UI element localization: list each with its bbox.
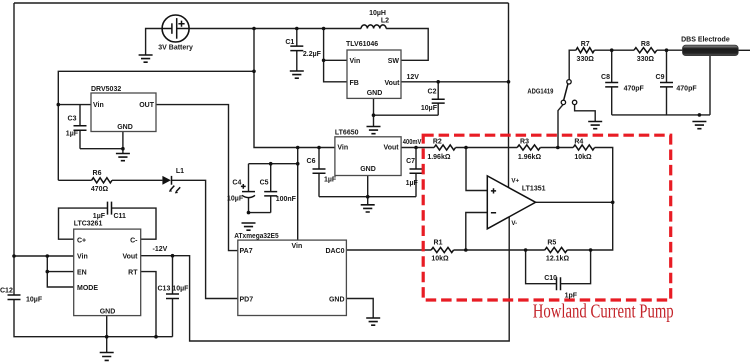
wire LTC3261 C+ to C11 to C- <box>59 208 157 239</box>
svg-text:R3: R3 <box>520 138 529 145</box>
svg-text:1.96kΩ: 1.96kΩ <box>427 154 451 161</box>
wire TLV61046 Vin drop <box>324 29 347 61</box>
svg-text:C9: C9 <box>656 74 665 81</box>
svg-text:V-: V- <box>511 220 517 227</box>
resistor R5 <box>545 247 567 252</box>
DBS electrode body <box>683 45 739 55</box>
wire C10 parallel loop <box>526 250 591 284</box>
svg-text:GND: GND <box>367 90 383 97</box>
svg-text:-12V: -12V <box>153 246 168 253</box>
svg-text:12.1kΩ: 12.1kΩ <box>546 256 570 263</box>
battery BT1 3V <box>162 15 189 42</box>
wire TLV61046 GND stem <box>373 98 375 126</box>
svg-text:GND: GND <box>100 309 116 316</box>
svg-text:LT6650: LT6650 <box>335 129 359 136</box>
wire LTC3261 Vin row <box>14 255 74 257</box>
svg-text:1pF: 1pF <box>565 293 578 300</box>
ground C4 C5 <box>242 223 256 230</box>
capacitor C7 <box>410 148 423 197</box>
svg-text:10µH: 10µH <box>369 10 386 17</box>
svg-text:10µF: 10µF <box>172 286 189 293</box>
svg-text:C-: C- <box>130 237 138 244</box>
svg-text:PA7: PA7 <box>240 248 253 255</box>
svg-text:100nF: 100nF <box>276 196 297 203</box>
svg-text:10µF: 10µF <box>227 196 244 203</box>
wire ATxmega Vin drop <box>297 148 299 241</box>
svg-text:GND: GND <box>360 166 376 173</box>
IC U2 TLV61046 <box>347 50 401 98</box>
svg-text:C+: C+ <box>77 237 86 244</box>
wire 3V drop at x254 to LT6650 Vin row <box>254 29 335 148</box>
svg-text:TLV61046: TLV61046 <box>346 41 378 48</box>
wire 3V rail after L2 to SW elbow <box>386 29 428 61</box>
Howland current pump dashed boundary <box>423 135 671 300</box>
ground C1 <box>290 71 304 78</box>
svg-text:C6: C6 <box>307 158 316 165</box>
svg-text:10kΩ: 10kΩ <box>431 256 449 263</box>
svg-text:ATxmega32E5: ATxmega32E5 <box>234 233 278 240</box>
svg-text:R4: R4 <box>574 138 583 145</box>
svg-text:R7: R7 <box>581 41 590 48</box>
svg-text:C2: C2 <box>428 88 437 95</box>
svg-text:3V Battery: 3V Battery <box>158 45 193 52</box>
wire op-amp output <box>536 201 613 203</box>
svg-text:C12: C12 <box>0 288 13 295</box>
svg-text:Vin: Vin <box>93 102 104 109</box>
IC U1 DRV5032 <box>91 93 156 132</box>
wire switch left throw to R3/R4 node <box>558 105 563 148</box>
wire DRV5032 GND stem <box>122 132 124 154</box>
capacitor C10 <box>550 277 567 290</box>
resistor R2 <box>434 145 455 150</box>
wire DRV5032 OUT to ATxmega PA7 <box>156 105 238 251</box>
wire 3V battery rail <box>189 28 361 30</box>
svg-text:LT1351: LT1351 <box>522 186 546 193</box>
svg-text:V+: V+ <box>511 178 519 185</box>
wire R3 to R4 switch node <box>540 147 573 149</box>
svg-text:Vin: Vin <box>292 243 303 250</box>
svg-text:Vout: Vout <box>122 254 138 261</box>
wire 12V frame left rail down to C12 <box>13 3 15 295</box>
ground ATxmega <box>366 318 380 325</box>
wire battery negative to ground <box>146 29 163 56</box>
wire C2 bottom return to TLV GND <box>374 114 439 116</box>
wire C4 C5 bottom rail <box>249 212 271 214</box>
svg-text:FB: FB <box>350 80 359 87</box>
resistor R3 <box>517 145 540 150</box>
IC U5 ATxmega32E5 <box>238 240 347 315</box>
svg-text:2.2µF: 2.2µF <box>303 51 322 58</box>
resistor R4 <box>573 145 594 150</box>
wire op-amp - input from R1/R5 node <box>466 213 488 251</box>
IC U4 LT6650 <box>335 137 401 176</box>
svg-text:GND: GND <box>117 124 133 131</box>
wire 12V frame right rail / op-amp V+ supply <box>508 3 510 188</box>
svg-text:DRV5032: DRV5032 <box>91 86 121 93</box>
svg-text:PD7: PD7 <box>240 297 254 304</box>
svg-text:L2: L2 <box>381 17 389 24</box>
svg-text:1µF: 1µF <box>93 213 106 220</box>
svg-text:C8: C8 <box>601 74 610 81</box>
svg-text:C4: C4 <box>232 180 241 187</box>
svg-text:SW: SW <box>388 58 400 65</box>
wire DBS electrode right terminal <box>738 49 750 51</box>
wire LTC3261 Vout -12V rail to op-amp V- <box>141 217 510 341</box>
wire R6 to LED <box>112 179 162 181</box>
svg-text:1µF: 1µF <box>324 176 337 183</box>
wire R2 to R3 <box>456 147 518 149</box>
svg-text:OUT: OUT <box>139 102 155 109</box>
capacitor C12 <box>8 295 21 300</box>
op-amp U6 LT1351 <box>487 176 535 229</box>
wire LTC3261 EN <box>47 271 73 273</box>
svg-text:Vin: Vin <box>77 254 88 261</box>
ground DRV5032 <box>116 154 130 161</box>
svg-text:1µF: 1µF <box>406 180 419 187</box>
svg-text:R1: R1 <box>434 239 443 246</box>
wire C3 bottom rail <box>80 148 123 150</box>
wire R1 to R5 node <box>454 249 526 251</box>
svg-text:L1: L1 <box>176 168 184 175</box>
wire LTC3261 RT to ground rail <box>141 272 156 337</box>
svg-text:Howland Current Pump: Howland Current Pump <box>533 301 674 322</box>
svg-text:Vin: Vin <box>350 58 361 65</box>
svg-text:400mV: 400mV <box>403 139 422 146</box>
svg-text:10µF: 10µF <box>421 105 438 112</box>
wire LT6650 GND stem <box>367 176 369 205</box>
wire ATxmega GND <box>346 299 373 319</box>
ground DBS <box>692 122 706 129</box>
wire R6 LED row from 3V rail <box>58 179 91 181</box>
svg-text:470pF: 470pF <box>624 85 645 92</box>
svg-text:RT: RT <box>128 270 138 277</box>
wire DRV5032 Vin <box>58 104 91 106</box>
svg-text:ADG1419: ADG1419 <box>527 89 553 96</box>
svg-text:Vin: Vin <box>337 145 348 152</box>
capacitor C2 <box>432 82 445 115</box>
svg-text:MODE: MODE <box>77 285 98 292</box>
wire switch right throw to ground <box>575 105 596 122</box>
ground battery <box>139 55 153 62</box>
svg-text:Vout: Vout <box>384 80 400 87</box>
capacitor C4 electrolytic <box>241 164 255 213</box>
svg-text:470pF: 470pF <box>676 85 697 92</box>
ground LTC3261 <box>100 353 114 361</box>
wire DBS electrode bottom drop <box>709 55 711 115</box>
LED L1 <box>162 176 180 194</box>
switch ADG1419 <box>561 80 577 105</box>
svg-text:R8: R8 <box>641 41 650 48</box>
svg-text:GND: GND <box>329 297 345 304</box>
wire LT6650 Vout 400mV to R2 <box>401 147 434 149</box>
wire TLV61046 FB branch <box>324 60 347 82</box>
svg-text:C7: C7 <box>406 158 415 165</box>
svg-text:R5: R5 <box>547 239 556 246</box>
wire R5 left lead <box>526 249 545 251</box>
svg-text:DBS Electrode: DBS Electrode <box>681 37 730 44</box>
svg-text:1.96kΩ: 1.96kΩ <box>518 154 542 161</box>
wire ATxmega DAC0 to R1 <box>346 249 431 251</box>
svg-text:10µF: 10µF <box>26 297 43 304</box>
capacitor C11 <box>108 202 112 215</box>
wire R7 to R8 <box>594 49 634 51</box>
wire LED to ATxmega PD7 <box>172 180 238 298</box>
wire op-amp + input from R2/R3 node <box>466 148 487 191</box>
svg-text:C5: C5 <box>260 180 269 187</box>
wire R4 right to op-amp output and R5 right <box>567 148 613 251</box>
svg-text:C11: C11 <box>114 213 127 220</box>
wire C8 C9 ground rail <box>612 114 710 116</box>
svg-text:R6: R6 <box>93 170 102 177</box>
svg-text:330Ω: 330Ω <box>637 56 655 63</box>
capacitor C13 <box>166 256 179 337</box>
svg-text:C13: C13 <box>158 286 171 293</box>
ground TLV61046 <box>367 127 381 134</box>
wire LTC3261 GND stem <box>106 316 108 353</box>
resistor R8 <box>634 48 657 53</box>
wire C4 C5 top rail <box>249 163 298 165</box>
capacitor C6 <box>313 148 326 197</box>
svg-text:DAC0: DAC0 <box>325 248 344 255</box>
resistor R6 <box>92 178 112 183</box>
capacitor C8 <box>605 50 618 115</box>
svg-text:EN: EN <box>77 270 87 277</box>
wire 12V frame top rail <box>14 2 509 4</box>
capacitor C5 <box>264 164 277 213</box>
capacitor C3 <box>74 105 87 149</box>
svg-text:C10: C10 <box>544 275 557 282</box>
svg-text:12V: 12V <box>407 74 420 81</box>
svg-text:LTC3261: LTC3261 <box>74 221 103 228</box>
ground LT6650 <box>361 205 375 212</box>
resistor R7 <box>576 48 594 53</box>
ground switch <box>588 122 602 129</box>
svg-text:C1: C1 <box>285 39 294 46</box>
wire 3V branch to DRV5032 left rail <box>58 71 254 180</box>
svg-text:330Ω: 330Ω <box>577 56 595 63</box>
wire LTC3261 EN/MODE branch <box>47 256 73 287</box>
svg-text:10kΩ: 10kΩ <box>574 154 592 161</box>
svg-text:C3: C3 <box>68 115 77 122</box>
wire ground rail bottom left <box>14 300 173 337</box>
IC U3 LTC3261 <box>74 229 141 316</box>
svg-text:Vout: Vout <box>384 145 400 152</box>
resistor R1 <box>431 247 453 252</box>
wire R8 to DBS electrode <box>657 49 683 51</box>
inductor L2 <box>361 25 386 29</box>
wire TLV61046 Vout 12V to frame <box>401 81 509 83</box>
svg-text:R2: R2 <box>433 138 442 145</box>
capacitor C1 <box>290 29 303 72</box>
capacitor C9 <box>660 50 673 115</box>
wire R7 row from switch pole <box>569 50 576 79</box>
svg-text:470Ω: 470Ω <box>91 186 109 193</box>
wire C6 C7 bottom rail <box>319 196 416 198</box>
svg-text:1µF: 1µF <box>66 131 79 138</box>
